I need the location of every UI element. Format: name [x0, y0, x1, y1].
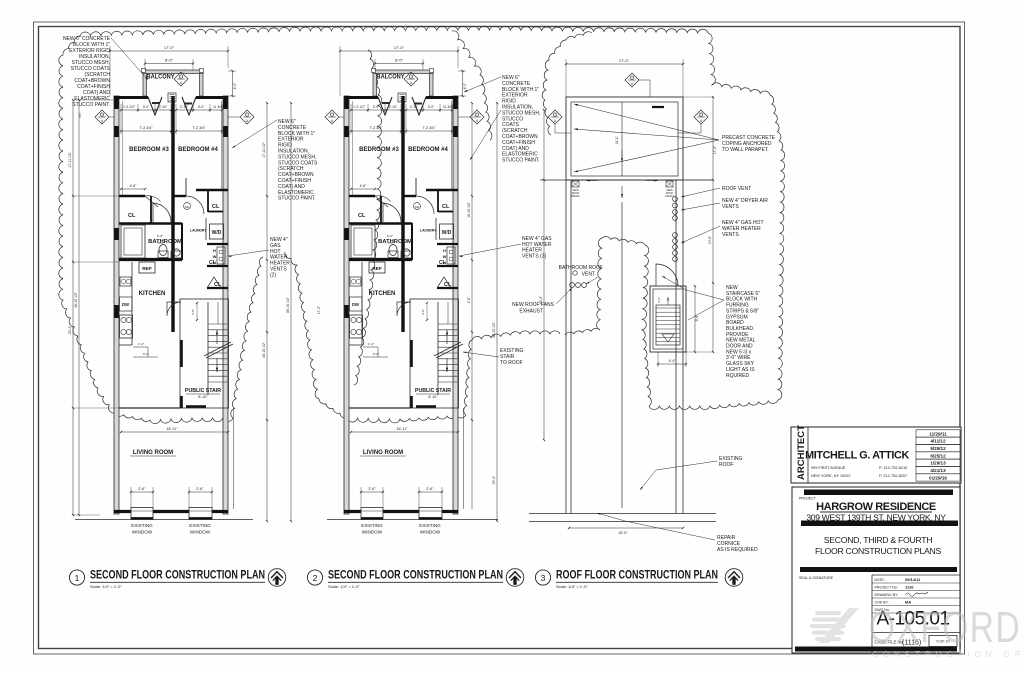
svg-text:ROOF FLOOR CONSTRUCTION PLAN: ROOF FLOOR CONSTRUCTION PLAN [556, 569, 718, 581]
svg-text:16'-10 1/2": 16'-10 1/2" [467, 201, 471, 218]
svg-text:46'-10 1/2": 46'-10 1/2" [74, 291, 78, 308]
svg-text:3'-8": 3'-8" [191, 309, 195, 315]
plan 1 left exterior wall [114, 96, 119, 514]
svg-text:7'-2 3/4": 7'-2 3/4" [139, 126, 153, 130]
stair treads [207, 302, 209, 395]
roof plan deck parapet inner [571, 102, 678, 176]
svg-text:2'-6": 2'-6" [426, 487, 434, 491]
svg-text:5/25/12: 5/25/12 [930, 446, 946, 451]
svg-text:SECOND FLOOR CONSTRUCTION PLAN: SECOND FLOOR CONSTRUCTION PLAN [90, 569, 265, 581]
plan 2 existing window left [361, 508, 383, 520]
closet CL left [380, 196, 382, 224]
svg-text:BEDROOM #3: BEDROOM #3 [359, 147, 399, 153]
svg-text:17'-11 1/2": 17'-11 1/2" [68, 151, 72, 167]
svg-text:1'-4": 1'-4" [138, 342, 144, 346]
project black bar 2 [801, 521, 958, 527]
closet CL right-top [437, 190, 439, 212]
svg-text:CL: CL [128, 213, 136, 219]
signature script [905, 592, 928, 596]
stair up arrow [446, 330, 448, 344]
svg-text:LIVING ROOM: LIVING ROOM [363, 450, 403, 456]
dimension 2-6 window left [361, 491, 383, 493]
svg-text:11/29/11: 11/29/11 [929, 431, 947, 436]
svg-text:DRAIN: DRAIN [571, 194, 579, 198]
living room top wall [119, 407, 180, 409]
refrigerator [369, 262, 385, 273]
unit entry door arc [186, 196, 204, 214]
svg-text:Scale: 1/4" = 1'-0": Scale: 1/4" = 1'-0" [556, 584, 588, 589]
dishwasher DW [120, 297, 133, 311]
bulkhead dim 9-6 [694, 286, 696, 352]
stove [120, 315, 133, 338]
svg-text:5'-0": 5'-0" [143, 352, 149, 356]
svg-text:TO ROOF: TO ROOF [500, 360, 523, 366]
svg-text:1'-2 1/2": 1'-2 1/2" [123, 105, 136, 109]
bath window jamb left wall [114, 228, 119, 240]
svg-text:3'-0": 3'-0" [373, 105, 380, 109]
svg-text:16'-11": 16'-11" [397, 427, 409, 431]
window symbol right [240, 110, 254, 124]
svg-text:W/D: W/D [212, 230, 222, 236]
leader from right stucco note to plan 2 [464, 77, 501, 92]
svg-text:8'-0": 8'-0" [165, 58, 174, 63]
plan 1 balcony walls [143, 70, 147, 96]
svg-text:DW: DW [352, 302, 359, 307]
bathtub [121, 225, 145, 258]
svg-text:WINDOW: WINDOW [190, 530, 211, 535]
plan 2 center party wall [401, 96, 404, 332]
bedroom south wall right [426, 189, 458, 191]
right wall extension lines plan 2 [463, 408, 465, 509]
plan 1 north wall [114, 96, 148, 99]
project title block [792, 487, 960, 653]
svg-text:6'-0": 6'-0" [387, 234, 393, 238]
ground line below plan 2 [327, 519, 498, 521]
svg-text:REF: REF [372, 266, 382, 272]
kitchen window jamb left wall [114, 305, 119, 318]
svg-text:3'-0": 3'-0" [428, 105, 435, 109]
vent circles column [673, 197, 678, 202]
plan 2 balcony depth dim 4-0 [462, 71, 464, 96]
svg-text:NEW YORK, NY 10022: NEW YORK, NY 10022 [811, 474, 851, 478]
roof top vent mark [652, 106, 664, 108]
existing bulkhead side walls [565, 180, 567, 513]
public stair hall [410, 299, 459, 408]
kitchen counter [131, 262, 133, 345]
plan 1 center party wall [171, 96, 174, 332]
svg-text:17'-0": 17'-0" [394, 45, 405, 50]
svg-text:23'-4": 23'-4" [68, 325, 72, 334]
roof diamond top [625, 73, 639, 87]
leader from stucco note to balcony [111, 38, 148, 80]
svg-text:11'-1": 11'-1" [615, 136, 619, 144]
svg-text:17'-11 1/2": 17'-11 1/2" [262, 141, 266, 157]
svg-text:WINDOW: WINDOW [420, 530, 441, 535]
stair treads [437, 302, 439, 395]
story dimension line left of roof plan [543, 110, 545, 440]
svg-text:7'-2 3/4": 7'-2 3/4" [369, 126, 383, 130]
stair bulkhead treads [656, 305, 680, 345]
toilet [158, 251, 168, 258]
svg-text:F: 212-752-8207: F: 212-752-8207 [879, 474, 907, 478]
svg-text:CL: CL [442, 204, 450, 210]
svg-text:4'-6": 4'-6" [360, 184, 368, 188]
bathroom walls [119, 258, 182, 261]
roof diamond right [694, 110, 708, 124]
svg-text:5'-0": 5'-0" [373, 352, 379, 356]
roof plan deck parapet outer [566, 97, 683, 180]
svg-text:2'-6": 2'-6" [467, 296, 471, 303]
svg-text:W/D: W/D [442, 230, 452, 236]
plan 1 dim 8-0 [145, 63, 193, 65]
architect title block [791, 427, 961, 483]
kitchen sink [120, 277, 131, 286]
bathroom walls [349, 258, 412, 261]
svg-text:1116: 1116 [905, 584, 914, 589]
plan 1 bottom wall [114, 510, 131, 513]
svg-text:DATE:: DATE: [875, 578, 885, 582]
svg-text:EXISTING: EXISTING [131, 523, 153, 528]
svg-text:SECOND, THIRD & FOURTH: SECOND, THIRD & FOURTH [824, 535, 932, 545]
svg-text:SEAL & SIGNATURE: SEAL & SIGNATURE [799, 576, 834, 580]
svg-text:REF: REF [142, 266, 152, 272]
svg-text:999 FIRST AVENUE: 999 FIRST AVENUE [811, 466, 846, 470]
revision cloud chain through plan 2 left [354, 50, 382, 385]
unit entry door arc [416, 196, 434, 214]
balcony corner posts [372, 69, 376, 73]
svg-text:KITCHEN: KITCHEN [369, 291, 396, 297]
svg-text:2'-6": 2'-6" [138, 487, 146, 491]
svg-text:EXHAUST: EXHAUST [519, 309, 543, 315]
bedroom south wall left [119, 195, 145, 197]
svg-text:1'-2 1/2": 1'-2 1/2" [353, 105, 366, 109]
svg-text:Scale: 1/4" = 1'-0": Scale: 1/4" = 1'-0" [90, 584, 122, 589]
story dimension lines between plan 2 and 3 [471, 103, 473, 509]
roof drains [572, 181, 579, 187]
svg-text:MITCHELL G. ATTICK: MITCHELL G. ATTICK [805, 450, 909, 462]
svg-text:17'-0": 17'-0" [619, 58, 630, 63]
kitchen window jamb left wall [344, 305, 349, 318]
svg-text:BATHROOM ROOF: BATHROOM ROOF [559, 265, 603, 271]
bedroom window jambs right wall [223, 98, 228, 109]
svg-text:RQUIRED: RQUIRED [726, 373, 749, 379]
svg-text:11 3/4": 11 3/4" [443, 105, 454, 109]
bathtub [351, 225, 375, 258]
revision cloud B right side and bottom around roof plan [649, 33, 785, 409]
revision cloud B left edge chain [542, 32, 592, 135]
closet CL mid right [437, 243, 458, 245]
svg-text:17'-0": 17'-0" [164, 45, 175, 50]
closet CL lower right [207, 287, 228, 289]
svg-text:CL: CL [212, 204, 220, 210]
svg-text:7'-2 3/4": 7'-2 3/4" [422, 126, 436, 130]
balcony french doors open leaves [148, 97, 162, 115]
svg-text:4'-0": 4'-0" [463, 82, 467, 90]
plan 2 bottom wall [344, 510, 361, 513]
architect rotated label [791, 427, 808, 483]
svg-text:STUCCO PAINT.: STUCCO PAINT. [278, 196, 316, 202]
right wall extension lines plan 1 [233, 408, 235, 509]
svg-text:BEDROOM #4: BEDROOM #4 [408, 147, 448, 153]
revision cloud main outline (top and left) [59, 26, 708, 336]
svg-text:16'-0": 16'-0" [618, 531, 628, 535]
bedroom window jambs right wall [453, 98, 458, 109]
svg-text:H: H [443, 248, 446, 253]
public stair hall [180, 299, 229, 408]
svg-text:1: 1 [75, 573, 80, 583]
plan 1 right exterior wall [223, 96, 228, 514]
bath window jamb left wall [344, 228, 349, 240]
section label 3 circle [535, 570, 550, 585]
plan 1 existing window left [131, 508, 153, 520]
svg-text:BALCONY: BALCONY [377, 75, 405, 81]
roof diamond left [548, 110, 562, 124]
svg-text:4'-4": 4'-4" [669, 359, 677, 363]
toilet [388, 251, 398, 258]
stair hall door arc [167, 302, 181, 316]
svg-text:2: 2 [313, 573, 318, 583]
plan 1 existing window right [189, 508, 212, 520]
wall furring lines [351, 101, 353, 196]
svg-text:BALCONY: BALCONY [147, 75, 175, 81]
stair break line [434, 342, 461, 356]
svg-text:17'-2": 17'-2" [317, 305, 321, 314]
svg-text:TO WALL PARAPET.: TO WALL PARAPET. [722, 147, 769, 153]
bedroom dimension row [351, 109, 401, 111]
svg-text:3'-0": 3'-0" [388, 241, 394, 245]
svg-text:4/21/13: 4/21/13 [930, 468, 946, 473]
wall furring lines [121, 101, 123, 196]
svg-text:7'-2 3/4": 7'-2 3/4" [192, 126, 206, 130]
svg-text:4'-6": 4'-6" [130, 184, 138, 188]
window symbol left [325, 110, 339, 124]
svg-text:8'-10": 8'-10" [428, 395, 438, 399]
dim 16-0 [569, 527, 683, 529]
refrigerator [139, 262, 155, 273]
project black bar top [804, 490, 953, 496]
svg-text:HARGROW RESIDENCE: HARGROW RESIDENCE [816, 501, 936, 513]
svg-text:16'-11": 16'-11" [167, 427, 179, 431]
svg-text:8'-0": 8'-0" [395, 58, 404, 63]
bulkhead door arc [656, 264, 678, 286]
svg-text:ROOF VENT: ROOF VENT [722, 186, 751, 192]
svg-text:BATHROOM: BATHROOM [378, 239, 412, 245]
svg-text:VENTS (3): VENTS (3) [522, 253, 547, 259]
closet CL mid right [207, 243, 228, 245]
kitchen counter [361, 262, 363, 345]
window symbol right [470, 110, 484, 124]
svg-text:CONSTRUCTION GROUP: CONSTRUCTION GROUP [872, 650, 1024, 659]
bedroom window jambs left wall [114, 98, 119, 109]
svg-text:LIVING ROOM: LIVING ROOM [133, 450, 173, 456]
window symbol diamond balcony [174, 72, 188, 86]
svg-text:STUCCO PAINT.: STUCCO PAINT. [502, 158, 540, 164]
svg-text:CL: CL [358, 213, 366, 219]
project black bar 3 [800, 567, 957, 572]
svg-text:AS IS REQUIRED: AS IS REQUIRED [717, 547, 758, 553]
plan 1 dim 17-0 [110, 50, 228, 52]
leader gas note to HWH [228, 250, 269, 256]
bedroom dimension row [121, 109, 171, 111]
svg-text:VENT: VENT [582, 272, 595, 278]
svg-text:SECOND FLOOR CONSTRUCTION PLAN: SECOND FLOOR CONSTRUCTION PLAN [328, 569, 503, 581]
svg-text:6'-0": 6'-0" [157, 234, 163, 238]
stair up arrow [216, 330, 218, 344]
window symbol diamond balcony [404, 72, 418, 86]
window symbol left [95, 110, 109, 124]
svg-text:PUBLIC STAIR: PUBLIC STAIR [415, 388, 451, 394]
dishwasher DW [350, 297, 363, 311]
smoke detector symbol [184, 203, 191, 210]
project block bottom bar [795, 647, 957, 652]
bathroom vent circles [573, 271, 577, 275]
svg-text:BEDROOM #3: BEDROOM #3 [129, 147, 169, 153]
svg-text:4'-0": 4'-0" [233, 82, 237, 90]
svg-text:DW: DW [122, 302, 129, 307]
plan 2 north wall [344, 96, 378, 99]
kitchen sink [350, 277, 361, 286]
svg-text:46'-10 1/2": 46'-10 1/2" [492, 321, 496, 338]
svg-text:CL: CL [439, 260, 446, 266]
revision cloud inner chain near bulkhead [565, 237, 651, 406]
bath sink [171, 251, 182, 258]
svg-text:VENTS: VENTS [722, 232, 739, 238]
bedroom south wall right [196, 189, 228, 191]
svg-text:LAUNDRY: LAUNDRY [190, 229, 207, 233]
north arrow 1 [268, 569, 286, 587]
roof deck arrows [621, 150, 623, 162]
plan 1 balcony depth dim 4-0 [232, 71, 234, 96]
svg-text:VENTS: VENTS [722, 204, 739, 210]
svg-text:46'-10 1/2": 46'-10 1/2" [262, 341, 266, 358]
plan 2 balcony walls [373, 70, 377, 96]
svg-text:BEDROOM #4: BEDROOM #4 [178, 147, 218, 153]
balcony french doors open leaves [378, 97, 392, 115]
roof dim 17-0 [566, 63, 683, 65]
story dimension lines between plan 1 and 2 [266, 103, 268, 521]
svg-text:10'-8": 10'-8" [708, 235, 712, 244]
svg-text:W: W [213, 254, 217, 259]
svg-text:3: 3 [541, 573, 546, 583]
svg-text:2'-10": 2'-10" [180, 105, 189, 109]
svg-text:LAUNDRY: LAUNDRY [420, 229, 437, 233]
revision cloud bottom lobes under plans 1 and 2 [77, 336, 233, 424]
plan 2 left exterior wall [344, 96, 349, 514]
north arrow 3 [725, 569, 743, 587]
bedroom window jambs left wall [344, 98, 349, 109]
stair bulkhead outer [650, 286, 686, 352]
svg-text:STUCCO PAINT.: STUCCO PAINT. [72, 102, 110, 108]
title block table [871, 575, 873, 653]
plan 2 right exterior wall [453, 96, 458, 514]
svg-text:H: H [213, 248, 216, 253]
roof bottom cornice lines [529, 513, 716, 515]
stair left wall black segments [180, 340, 183, 367]
svg-text:2'-10": 2'-10" [410, 105, 419, 109]
svg-text:PROJECT No:: PROJECT No: [875, 585, 898, 589]
stair left wall black segments [410, 340, 413, 367]
svg-text:8'-10": 8'-10" [198, 395, 208, 399]
svg-text:86'-10 1/2": 86'-10 1/2" [286, 296, 290, 313]
svg-text:1/29/13: 1/29/13 [930, 461, 946, 466]
living room top wall [349, 407, 410, 409]
svg-text:2'-10": 2'-10" [389, 105, 398, 109]
svg-text:09/14/11: 09/14/11 [905, 577, 921, 582]
svg-text:PUBLIC STAIR: PUBLIC STAIR [185, 388, 221, 394]
bulkhead dim 4-4 [658, 363, 686, 365]
bath sink [401, 251, 412, 258]
stove [350, 315, 363, 338]
svg-text:3'-0": 3'-0" [143, 105, 150, 109]
svg-text:WINDOW: WINDOW [362, 530, 383, 535]
svg-text:3'-8": 3'-8" [421, 309, 425, 315]
svg-text:4/11/12: 4/11/12 [930, 439, 946, 444]
svg-text:11 3/4": 11 3/4" [213, 105, 224, 109]
svg-text:EXISTING: EXISTING [419, 523, 441, 528]
watermark text OXFORD [869, 604, 1021, 652]
story dimension line right of roof plan [712, 97, 714, 352]
roof deck center line [621, 102, 623, 176]
ground line below plan 1 [75, 519, 253, 521]
stair break line [204, 342, 231, 356]
svg-text:DRAWING BY:: DRAWING BY: [875, 593, 899, 597]
smoke detector symbol [414, 203, 421, 210]
svg-text:CL: CL [209, 260, 216, 266]
svg-text:KITCHEN: KITCHEN [139, 291, 166, 297]
closet CL lower right [437, 287, 458, 289]
svg-text:3'-0": 3'-0" [158, 241, 164, 245]
svg-text:2'-6": 2'-6" [196, 487, 204, 491]
svg-text:17'-2": 17'-2" [713, 145, 717, 154]
svg-text:OXFORD: OXFORD [869, 604, 1021, 652]
stair hall door arc [397, 302, 411, 316]
north arrow 2 [506, 569, 524, 587]
svg-text:ROOF: ROOF [719, 462, 733, 468]
svg-text:FLOOR CONSTRUCTION PLANS: FLOOR CONSTRUCTION PLANS [815, 546, 942, 556]
svg-text:3'-0": 3'-0" [657, 297, 661, 303]
balcony corner posts [142, 69, 146, 73]
bedroom south wall left [349, 195, 375, 197]
svg-text:01/29/16: 01/29/16 [929, 475, 947, 480]
section label 2 circle [307, 570, 322, 585]
parapet front line [540, 179, 712, 181]
bathroom door arc [383, 203, 401, 222]
hot water heater stack H W H [217, 247, 225, 264]
plan 2 existing window right [419, 508, 442, 520]
dimension 2-6 window left [131, 491, 153, 493]
svg-text:(2): (2) [270, 272, 276, 278]
hot water heater stack H W H [447, 247, 455, 264]
svg-text:EXISTING: EXISTING [361, 523, 383, 528]
story dimension lines left of plan 1 [72, 100, 74, 515]
closet CL right-top [207, 190, 209, 212]
svg-text:2'-10": 2'-10" [159, 105, 168, 109]
svg-text:PROJECT: PROJECT [799, 497, 817, 501]
revision cloud chain right of plan 2 [452, 31, 492, 140]
svg-text:2'-6": 2'-6" [368, 487, 376, 491]
svg-text:DRAIN: DRAIN [665, 194, 673, 198]
plan 2 dim 8-0 [375, 63, 423, 65]
leader from mid stucco note to plan 1 wall [232, 120, 277, 148]
plan 2 dim 17-0 [340, 50, 458, 52]
svg-text:Scale: 1/4" = 1'-0": Scale: 1/4" = 1'-0" [328, 584, 360, 589]
closet CL left [150, 196, 152, 224]
svg-text:EXISTING: EXISTING [189, 523, 211, 528]
svg-text:BATHROOM: BATHROOM [148, 239, 182, 245]
svg-text:1'-4": 1'-4" [368, 342, 374, 346]
svg-text:3'-0": 3'-0" [198, 105, 205, 109]
svg-text:P: 212-752-8210: P: 212-752-8210 [879, 466, 907, 470]
